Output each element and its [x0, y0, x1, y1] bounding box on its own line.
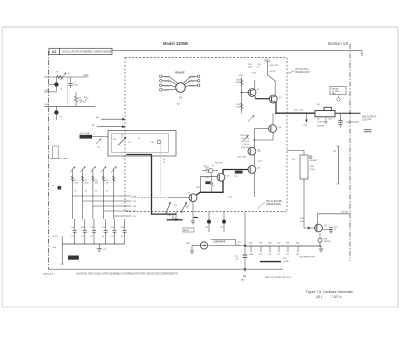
attenuator pad R27 [260, 246, 262, 252]
svg-text:R20 316: R20 316 [215, 163, 223, 165]
svg-text:C36: C36 [121, 227, 124, 229]
feedthrough capacitor C21 [222, 220, 226, 224]
svg-text:C11: C11 [174, 205, 177, 207]
range switch S1 [160, 71, 200, 100]
junction dot main line [349, 112, 351, 114]
-10V feed wire [44, 91, 56, 93]
svg-text:4.6-10: 4.6-10 [164, 81, 171, 83]
svg-text:316: 316 [106, 183, 109, 185]
svg-text:.01: .01 [334, 229, 337, 231]
svg-text:1/2W RESISTORS: 1/2W RESISTORS [299, 257, 316, 259]
svg-text:P/O A1 OSC: P/O A1 OSC [296, 68, 309, 71]
Q7 base wire [168, 196, 190, 198]
A1 board dashed outline [125, 58, 287, 212]
svg-text:C37: C37 [103, 249, 106, 251]
svg-text:1500: 1500 [74, 183, 78, 185]
lamp feed wire [208, 244, 245, 246]
svg-text:Model 3200B: Model 3200B [163, 41, 188, 46]
assembly boundary dash-dot left [48, 51, 50, 270]
svg-text:R17 825: R17 825 [241, 141, 249, 143]
ground [319, 246, 324, 252]
svg-text:R16 1500: R16 1500 [240, 135, 250, 137]
svg-text:C14 15: C14 15 [269, 71, 276, 73]
switch contact A2S1A [166, 202, 171, 214]
test point TP2 [235, 171, 243, 174]
svg-text:C5: C5 [74, 191, 76, 193]
svg-text:22-46: 22-46 [189, 81, 195, 83]
svg-text:BOARD ASSY: BOARD ASSY [296, 71, 311, 74]
svg-text:+20V: +20V [83, 75, 89, 77]
capacitor C22 [235, 255, 248, 262]
collector rail [254, 128, 268, 130]
coupling dashed tie [132, 196, 167, 198]
range bus wires [72, 195, 131, 197]
svg-text:FILTER: FILTER [317, 126, 325, 128]
padder resistor string R5 [70, 167, 75, 219]
svg-text:C32: C32 [81, 227, 84, 229]
attenuator pad R30 [287, 246, 289, 252]
ground [97, 244, 107, 252]
svg-text:C8: C8 [106, 191, 108, 193]
feedback bracket [337, 146, 339, 184]
bypass capacitor C33 [91, 219, 97, 244]
-10V bus wire [44, 105, 95, 107]
bold feedback staircase [126, 155, 176, 215]
svg-text:.01: .01 [91, 236, 94, 238]
svg-text:C21: C21 [220, 227, 223, 229]
main RF output line (bold) [276, 112, 316, 114]
page edge top [2, 26, 398, 28]
Q6 base return wire [200, 177, 217, 193]
coarse tune label [80, 135, 93, 139]
svg-text:C16 20: C16 20 [243, 144, 250, 146]
svg-text:* FACTORY SELECTED (P/O): * FACTORY SELECTED (P/O) [264, 276, 291, 279]
padder resistor string R7 [80, 167, 85, 219]
transistor Q6 [217, 173, 230, 181]
svg-text:Section VII: Section VII [328, 41, 348, 46]
svg-text:1-2V P-P: 1-2V P-P [362, 119, 372, 121]
feedthrough capacitor C3 [54, 82, 58, 86]
svg-text:.01: .01 [111, 236, 114, 238]
svg-text:+15V: +15V [264, 59, 270, 61]
svg-text:10-22: 10-22 [164, 76, 170, 78]
svg-text:46-100: 46-100 [189, 76, 196, 78]
svg-text:THERM: THERM [324, 241, 331, 243]
svg-text:R29: R29 [277, 243, 280, 245]
A1 assembly title box [49, 48, 112, 54]
svg-text:LOW PASS: LOW PASS [213, 241, 226, 244]
diode CR1 [202, 165, 218, 173]
R1 variable arrow [61, 73, 67, 80]
connector P1 [57, 186, 61, 190]
svg-text:A1: A1 [52, 49, 58, 54]
svg-text:RANGE: RANGE [175, 71, 185, 75]
switch contact A2S1B [174, 202, 188, 213]
bypass capacitor C35 [111, 219, 117, 244]
svg-text:CAUTION: THE OSCILLATOR ASSEMB: CAUTION: THE OSCILLATOR ASSEMBLY CONTAIN… [76, 272, 178, 275]
supply return wire [61, 236, 63, 264]
svg-text:COAX: COAX [283, 260, 289, 263]
bypass capacitor C34 [102, 219, 108, 244]
svg-text:C33: C33 [91, 227, 94, 229]
low pass filter FL1 [315, 104, 335, 128]
level control box [287, 151, 317, 229]
padder resistor string R10 [111, 167, 116, 219]
resistor R21 [210, 173, 213, 192]
svg-text:R28: R28 [268, 243, 271, 245]
svg-text:C6: C6 [85, 191, 87, 193]
P/O A1 board label lower [258, 200, 282, 209]
attenuator pad R29 [278, 246, 280, 252]
+15V supply tick [265, 60, 271, 62]
attenuator pad R28 [269, 246, 271, 252]
transistor Q1 [242, 89, 261, 97]
+20V down arrow [306, 113, 308, 122]
svg-text:P/O A1 BOARD: P/O A1 BOARD [266, 200, 282, 203]
wire into board lower [97, 126, 125, 128]
Q7 emitter drop [192, 202, 194, 221]
board drop wire [244, 212, 246, 255]
trimmer R4 [96, 139, 101, 144]
resistor R1 [57, 75, 63, 78]
svg-text:RELAY: RELAY [310, 159, 317, 162]
J1 reference label [364, 129, 372, 132]
main RF line to filter out [335, 112, 361, 114]
oscillator sub-board box [108, 131, 176, 157]
attenuator pad R31 [297, 246, 299, 252]
ground [339, 125, 343, 128]
svg-text:100-220: 100-220 [189, 85, 197, 87]
svg-text:.01: .01 [71, 236, 74, 238]
svg-text:.01: .01 [121, 236, 124, 238]
svg-text:R31: R31 [296, 243, 299, 245]
svg-text:+20V: +20V [303, 125, 308, 127]
svg-text:S1: S1 [179, 96, 183, 100]
+20V feed wire [44, 76, 89, 78]
svg-text:L5: L5 [186, 208, 188, 210]
resistor R23 stub [168, 212, 179, 221]
bypass capacitor C36 [121, 219, 127, 244]
Q2 collector riser [268, 61, 276, 95]
bold staircase to Q5 [196, 170, 248, 195]
transistor Q4 [248, 147, 261, 155]
svg-text:C35: C35 [111, 227, 114, 229]
svg-text:-10V: -10V [44, 104, 49, 106]
capacitor C26 [322, 227, 337, 233]
svg-text:OSC TUNE: OSC TUNE [80, 133, 91, 135]
svg-text:C34: C34 [102, 227, 105, 229]
page edge right [397, 27, 399, 307]
svg-text:+5.2V: +5.2V [52, 236, 58, 238]
thermistor RT1 [318, 233, 331, 246]
chassis boundary dash-dot right [349, 44, 351, 261]
svg-text:R18 100: R18 100 [241, 147, 249, 149]
svg-text:121: 121 [277, 254, 280, 256]
svg-text:562: 562 [95, 183, 98, 185]
svg-text:121: 121 [268, 254, 271, 256]
bypass dashed tie [67, 77, 69, 106]
P/O A1 board label top right [288, 68, 311, 74]
junction dots [275, 112, 277, 114]
resistor R14 [240, 79, 243, 85]
svg-text:OSCILLATOR ASSEMBLY (08620-600: OSCILLATOR ASSEMBLY (08620-60008) [62, 50, 112, 54]
S1 wafer pins left [160, 75, 163, 78]
svg-text:A2S1: A2S1 [184, 229, 190, 232]
svg-text:+1.2V: +1.2V [257, 161, 263, 163]
wire into board upper [101, 118, 125, 120]
svg-text:R27: R27 [259, 243, 262, 245]
svg-text:LOW PASS: LOW PASS [317, 120, 328, 123]
bold shield bar [167, 219, 183, 221]
tuning pot R6 [114, 134, 155, 146]
Q1-Q2 emitter link (bold) [255, 98, 269, 100]
ground bus [62, 243, 124, 245]
padder resistor string R9 [101, 167, 106, 219]
lamp DS1 [186, 239, 241, 253]
P/O label box [68, 256, 79, 260]
svg-text:(08620-60008): (08620-60008) [266, 204, 281, 206]
bypass capacitor C32 [81, 219, 87, 244]
reference label box [183, 228, 194, 232]
svg-text:R26: R26 [249, 243, 252, 245]
A3 interconnect arrow [244, 262, 246, 271]
feedthrough capacitor C20 [207, 220, 211, 224]
svg-text:C20: C20 [205, 227, 208, 229]
Q8 collector tie [317, 214, 350, 226]
svg-text:R13 2150: R13 2150 [270, 65, 280, 67]
Q3 emitter to rail [254, 133, 273, 141]
svg-text:(61): (61) [316, 295, 322, 299]
capacitor C1 [68, 77, 79, 88]
svg-text:1000: 1000 [85, 183, 89, 185]
terminal box [53, 146, 59, 158]
svg-text:C7: C7 [95, 191, 97, 193]
ground [191, 221, 195, 224]
bypass capacitor row C31 [71, 219, 77, 244]
S1 wafer pins right [197, 75, 200, 78]
schematic border bottom [49, 268, 284, 270]
svg-text:08620-A-14: 08620-A-14 [43, 272, 55, 275]
balloon node 5 [157, 140, 161, 144]
resistor R15 [240, 103, 243, 109]
schematic border top [112, 50, 363, 52]
page edge bottom [2, 306, 398, 308]
transistor Q3 [269, 113, 282, 132]
svg-text:-10V: -10V [52, 247, 57, 249]
resistor R2 [74, 92, 82, 106]
test point TP3 [205, 181, 210, 184]
attenuator pad R26 [250, 246, 252, 252]
svg-text:(B): (B) [92, 125, 95, 127]
svg-text:+20V: +20V [238, 75, 244, 77]
transistor Q8 [300, 218, 328, 232]
Q1 collector stub [254, 80, 256, 89]
transistor Q7 [187, 193, 197, 202]
inductor L1 squiggle [80, 98, 89, 103]
bias network vertical wire [241, 78, 243, 114]
variable arrow [243, 136, 248, 141]
serial tag note box [330, 86, 346, 101]
svg-text:C31: C31 [71, 227, 74, 229]
svg-text:215: 215 [259, 254, 262, 256]
svg-text:33: 33 [236, 259, 238, 261]
ladder rail left stub [50, 157, 69, 159]
RF output labels [362, 117, 377, 122]
svg-text:P/O W2: P/O W2 [341, 212, 349, 214]
svg-text:7-5/7-6: 7-5/7-6 [331, 295, 342, 299]
page edge left [1, 27, 3, 307]
capacitor C19 to ground [338, 113, 342, 124]
svg-text:-10V: -10V [44, 90, 49, 92]
sub-board inner outline [112, 134, 169, 153]
transistor Q5 [248, 166, 261, 174]
padder resistor string R8 [90, 167, 95, 219]
svg-text:R19 1000: R19 1000 [238, 157, 248, 159]
dotted feedback tie [160, 145, 162, 195]
feedthrough capacitor C4 [54, 110, 58, 114]
J2 stub wire [346, 121, 359, 123]
delay line bar [260, 261, 281, 263]
svg-text:50Ω OUTPUT: 50Ω OUTPUT [362, 117, 377, 119]
svg-text:.01: .01 [81, 236, 84, 238]
variable cap arrow C15 [248, 116, 254, 122]
svg-text:C19: C19 [168, 215, 171, 217]
Q2 emitter drop (bold) [275, 102, 277, 113]
svg-text:215: 215 [286, 254, 289, 256]
svg-text:+0.6V: +0.6V [204, 177, 210, 179]
svg-text:TAG: TAG [332, 92, 337, 95]
svg-text:(A): (A) [96, 116, 99, 119]
output bus lower [245, 245, 321, 247]
svg-text:Figure 7-5. Oscillator Schema: Figure 7-5. Oscillator Schematic, [306, 290, 354, 294]
transistor Q2 [269, 95, 282, 103]
svg-text:R30: R30 [286, 243, 289, 245]
svg-text:.01: .01 [102, 236, 105, 238]
S1 contact wires [162, 76, 177, 83]
